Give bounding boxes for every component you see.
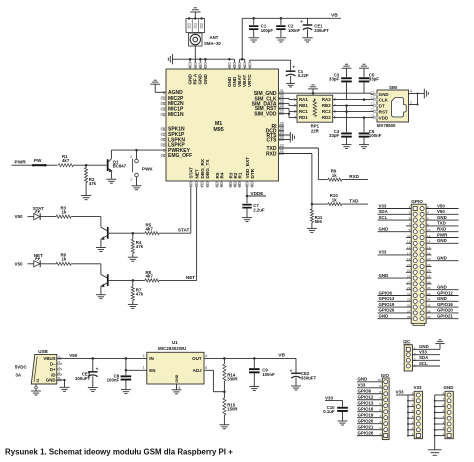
svg-text:7: 7 (442, 397, 444, 401)
svg-text:R1: R1 (237, 172, 242, 178)
ground under C7 (242, 217, 252, 219)
labels 5VDC 3A (15, 364, 28, 377)
ground under CE1 (302, 37, 312, 39)
svg-text:33: 33 (407, 298, 411, 302)
svg-text:100uFT: 100uFT (75, 376, 91, 381)
svg-text:GPIO16: GPIO16 (358, 407, 374, 412)
svg-text:PW: PW (34, 158, 42, 163)
ground under R7 (128, 303, 138, 305)
wires SIM_CLK SIM_DATA SIM_RST SIM_VDD to RP1 (279, 99, 298, 118)
svg-text:GPIO26: GPIO26 (358, 430, 374, 435)
svg-text:30: 30 (250, 184, 254, 188)
IC M1 M95 body (166, 69, 279, 181)
svg-text:41: 41 (215, 184, 219, 188)
svg-text:0.22F: 0.22F (298, 73, 309, 78)
svg-text:16: 16 (162, 154, 166, 158)
connector USB (31, 349, 62, 384)
svg-text:3: 3 (412, 420, 414, 424)
wire STAT net to IC (178, 188, 191, 234)
capacitor Cx 0.22F supercap (286, 65, 309, 83)
resistor R15 150R (223, 392, 239, 425)
svg-text:C5: C5 (371, 91, 375, 95)
svg-text:NET: NET (194, 169, 199, 179)
svg-text:11: 11 (407, 234, 410, 238)
svg-text:3: 3 (294, 110, 296, 114)
svg-text:SMA–30: SMA–30 (204, 41, 221, 46)
ground for I2C GND pin (435, 340, 444, 349)
svg-text:DBG_TX: DBG_TX (205, 159, 210, 179)
svg-text:V50: V50 (15, 261, 24, 266)
svg-text:32: 32 (427, 292, 431, 296)
resistor R9 1k (328, 169, 368, 182)
connector V33 8pin (407, 385, 422, 439)
resistor R6 1k (56, 253, 101, 266)
svg-text:4k7: 4k7 (146, 226, 154, 231)
svg-text:GPIO19: GPIO19 (358, 412, 374, 417)
svg-text:GND: GND (437, 296, 447, 301)
svg-text:4: 4 (294, 116, 296, 120)
svg-text:RXD: RXD (437, 227, 446, 232)
svg-text:25: 25 (407, 275, 411, 279)
svg-text:RA2: RA2 (322, 97, 331, 102)
IC M1 bottom pin labels (189, 157, 255, 188)
svg-text:R4: R4 (219, 172, 224, 178)
resistor R4 47k (131, 233, 143, 257)
svg-text:330R: 330R (227, 376, 238, 381)
svg-text:+: + (96, 367, 99, 372)
svg-text:GND: GND (379, 227, 389, 232)
svg-text:31: 31 (407, 292, 411, 296)
svg-text:SIM: SIM (389, 85, 397, 90)
IC U1 MIC29302WU (147, 340, 208, 384)
svg-text:1k: 1k (332, 197, 337, 202)
svg-text:2: 2 (130, 155, 132, 159)
svg-text:VB: VB (331, 12, 338, 18)
svg-text:RB1: RB1 (299, 103, 308, 108)
wire top GND bus (173, 58, 235, 63)
svg-text:V33: V33 (358, 383, 366, 388)
connector GPIO 2x20 header body (411, 199, 426, 326)
svg-text:100nF: 100nF (288, 28, 301, 33)
ground left of top GND bus (168, 54, 172, 64)
svg-text:47k: 47k (89, 181, 97, 186)
svg-text:23: 23 (280, 135, 284, 139)
IC M1 top pins group 2 (GND GND VBAT VBAT VRTC) (227, 63, 252, 88)
ground for RTS CTS pins (279, 132, 295, 142)
svg-text:GPIO26: GPIO26 (379, 308, 395, 313)
svg-text:10: 10 (427, 228, 431, 232)
label PWR net (12, 160, 34, 166)
label V33 for C10 (325, 395, 343, 400)
svg-text:RST: RST (379, 109, 388, 114)
svg-text:14: 14 (195, 184, 199, 188)
svg-text:24: 24 (427, 269, 431, 273)
svg-text:1: 1 (414, 347, 416, 351)
svg-text:MIC29302WU: MIC29302WU (158, 346, 186, 351)
svg-text:38: 38 (427, 309, 431, 313)
wire U1 OUT to VB (204, 353, 296, 360)
transistor NET driver (101, 264, 109, 294)
ground under C10 (338, 420, 348, 422)
svg-text:NET: NET (34, 253, 43, 258)
svg-text:59: 59 (193, 65, 197, 69)
svg-text:30: 30 (427, 286, 431, 290)
capacitor CE3 100uFT (75, 358, 99, 387)
ground up on SIM_GND (308, 85, 318, 93)
svg-text:28: 28 (427, 280, 431, 284)
svg-text:12: 12 (427, 234, 431, 238)
svg-text:OUT: OUT (192, 356, 202, 361)
svg-text:16: 16 (228, 65, 232, 69)
svg-text:RD2: RD2 (322, 115, 331, 120)
GPIO right side wires and labels (426, 203, 458, 319)
svg-text:18: 18 (162, 102, 166, 106)
IC M1 left pin labels (161, 90, 192, 159)
ground for AGND pin (150, 80, 166, 92)
svg-text:21: 21 (407, 263, 411, 267)
wire Q1 collector to PWRKEY (111, 149, 166, 152)
svg-text:1k: 1k (62, 209, 67, 214)
svg-text:MX78600: MX78600 (377, 123, 396, 128)
svg-text:3: 3 (409, 211, 411, 215)
svg-text:DBG_RX: DBG_RX (200, 158, 205, 178)
ground under C1 (249, 37, 259, 39)
svg-text:47k: 47k (136, 244, 144, 249)
svg-text:33pF: 33pF (329, 133, 339, 138)
wire VRTC to Cx (250, 60, 291, 71)
transistor Q1 BC847 (107, 150, 127, 179)
connector SIM MX78600 (371, 85, 409, 128)
resistor R3 1k (56, 205, 101, 218)
jumper PW (32, 158, 58, 167)
svg-text:19: 19 (162, 107, 166, 111)
svg-text:5VDC: 5VDC (15, 364, 28, 369)
svg-text:40: 40 (427, 315, 431, 319)
ground above ANT connector (190, 8, 200, 19)
wire NET driver base node (109, 279, 145, 282)
svg-text:4: 4 (442, 415, 444, 419)
svg-text:4: 4 (379, 414, 381, 418)
svg-text:GND: GND (437, 256, 447, 261)
svg-text:SIM_VDD: SIM_VDD (254, 111, 277, 117)
svg-text:20: 20 (162, 113, 166, 117)
svg-text:25: 25 (280, 126, 284, 130)
resistor R5 4k7 (145, 223, 191, 235)
svg-text:34: 34 (238, 184, 242, 188)
svg-text:DT: DT (379, 103, 385, 108)
svg-text:C3: C3 (371, 96, 375, 100)
svg-text:330uFT: 330uFT (314, 28, 329, 33)
svg-text:58: 58 (198, 65, 202, 69)
wire NET net to IC (186, 188, 197, 281)
svg-text:GND: GND (419, 344, 429, 349)
svg-text:4: 4 (410, 89, 412, 93)
svg-text:GPIO21: GPIO21 (358, 424, 374, 429)
ground under R11 (307, 227, 317, 229)
svg-text:15: 15 (233, 65, 237, 69)
svg-text:2: 2 (379, 426, 381, 430)
svg-text:14: 14 (427, 240, 431, 244)
svg-text:V33: V33 (379, 250, 387, 255)
ground under R15 (219, 424, 229, 426)
svg-text:6: 6 (427, 217, 429, 221)
wire VBAT bus segment (240, 58, 245, 63)
svg-text:GND: GND (175, 374, 179, 382)
svg-text:GND: GND (437, 238, 447, 243)
svg-text:4: 4 (205, 354, 207, 358)
svg-text:34: 34 (238, 65, 242, 69)
svg-text:V50: V50 (15, 214, 24, 219)
svg-text:PWK: PWK (142, 166, 153, 171)
capacitor C8 100nF and EN wire (107, 354, 147, 390)
svg-text:STAT: STAT (178, 228, 190, 233)
capacitor C4 33pF (329, 106, 352, 145)
svg-text:6: 6 (379, 402, 381, 406)
svg-text:3: 3 (178, 386, 180, 390)
svg-text:V33: V33 (396, 389, 405, 394)
svg-text:STAT: STAT (189, 167, 194, 179)
svg-text:RB2: RB2 (322, 103, 331, 108)
capacitor C6 100nF (359, 118, 382, 145)
svg-text:D–: D– (50, 362, 56, 367)
svg-text:S1: S1 (36, 378, 40, 382)
svg-text:4k7: 4k7 (146, 274, 154, 279)
svg-text:21: 21 (162, 133, 166, 137)
label V50 for NET branch (15, 261, 35, 266)
svg-text:4: 4 (414, 364, 416, 368)
svg-text:3A: 3A (15, 373, 22, 378)
svg-text:GND: GND (358, 377, 368, 382)
svg-text:57: 57 (204, 65, 208, 69)
svg-text:C2: C2 (371, 108, 375, 112)
svg-text:8: 8 (379, 390, 381, 394)
svg-text:1: 1 (130, 178, 132, 182)
svg-text:35: 35 (407, 304, 411, 308)
svg-text:1: 1 (412, 432, 414, 436)
wire SIM_GND from IC to SIM connector (279, 92, 378, 95)
pushbutton PWK (130, 150, 153, 186)
label V50 for STAT branch (15, 214, 35, 219)
svg-text:6: 6 (412, 403, 414, 407)
node R1/R2/Q1 base (85, 164, 88, 167)
svg-text:5: 5 (409, 217, 411, 221)
svg-text:SCL: SCL (419, 361, 428, 366)
wires SIM connector card detect to ground (409, 89, 425, 105)
label ANT SMA-20 (204, 35, 221, 46)
svg-text:100pF: 100pF (261, 28, 274, 33)
resistor R2 47k (85, 165, 97, 195)
svg-text:ADJ: ADJ (193, 368, 202, 373)
svg-text:V50: V50 (437, 209, 445, 214)
ground under CE3 (88, 387, 98, 389)
svg-text:16: 16 (427, 246, 431, 250)
svg-text:U1: U1 (172, 340, 178, 345)
svg-text:GIO: GIO (381, 373, 390, 378)
wires RP1 to SIM connector (333, 98, 377, 119)
svg-text:29: 29 (280, 99, 284, 103)
svg-text:26: 26 (427, 275, 431, 279)
svg-text:7: 7 (409, 222, 411, 226)
wire U1 ADJ to divider (204, 370, 224, 391)
svg-text:GPIO21: GPIO21 (437, 314, 453, 319)
svg-text:VRTC: VRTC (247, 74, 252, 87)
svg-text:15: 15 (407, 246, 411, 250)
svg-text:VB: VB (278, 353, 285, 359)
capacitor C1 100pF (249, 17, 273, 37)
svg-text:+: + (290, 368, 293, 373)
svg-text:SDA: SDA (419, 355, 429, 360)
ground under C6 (359, 144, 369, 146)
svg-text:5: 5 (412, 409, 414, 413)
svg-text:1: 1 (379, 432, 381, 436)
IC M1 right pin labels and numbers (252, 89, 284, 157)
ground under STAT driver emitter (96, 247, 106, 249)
svg-text:VBUS: VBUS (43, 356, 55, 361)
svg-text:D+: D+ (50, 367, 56, 372)
svg-text:MIC1N: MIC1N (168, 112, 184, 118)
svg-text:1: 1 (294, 98, 296, 102)
svg-text:40: 40 (220, 184, 224, 188)
svg-text:C1: C1 (371, 114, 375, 118)
svg-text:1k: 1k (332, 173, 337, 178)
svg-text:34: 34 (427, 298, 431, 302)
svg-text:GPIO6: GPIO6 (379, 290, 393, 295)
resistor R10 1k (328, 193, 368, 205)
svg-text:GND: GND (437, 285, 447, 290)
LED STAT (33, 206, 56, 220)
svg-text:NET: NET (186, 275, 195, 280)
svg-text:2: 2 (143, 354, 145, 358)
capacitor C5 33pF with ground up (359, 64, 380, 93)
ground right of SIM connector (423, 89, 425, 99)
svg-text:3: 3 (442, 420, 444, 424)
svg-text:V33: V33 (414, 385, 423, 390)
capacitor C2 100nF (276, 17, 300, 37)
svg-text:GND: GND (437, 215, 447, 220)
svg-text:17: 17 (200, 184, 204, 188)
wire USB GND pin to ground (57, 379, 70, 391)
ground under R2 (81, 195, 91, 197)
svg-text:2: 2 (442, 426, 444, 430)
svg-text:9: 9 (409, 228, 411, 232)
ground under Cx (286, 82, 295, 84)
svg-text:SDA: SDA (379, 209, 389, 214)
svg-text:9: 9 (379, 384, 381, 388)
resistor network RP1 22R (294, 95, 336, 133)
svg-text:V50: V50 (69, 353, 78, 358)
svg-text:8: 8 (442, 391, 444, 395)
capacitor C3 33pF with ground up (329, 64, 352, 99)
svg-text:150R: 150R (227, 406, 238, 411)
svg-text:IN: IN (149, 356, 154, 361)
svg-text:13: 13 (407, 240, 411, 244)
svg-text:3: 3 (414, 358, 416, 362)
svg-text:100nF: 100nF (262, 372, 275, 377)
svg-text:17: 17 (407, 251, 411, 255)
ground under C4 (342, 144, 352, 146)
ground under Q1 emitter (106, 178, 116, 180)
svg-text:RA1: RA1 (299, 97, 308, 102)
svg-text:22R: 22R (311, 128, 320, 133)
ground under C2 (276, 37, 286, 39)
wire VB rail (242, 18, 341, 59)
svg-text:PWR: PWR (437, 232, 448, 237)
svg-text:STAT: STAT (33, 206, 44, 211)
svg-text:30: 30 (280, 94, 284, 98)
svg-text:7: 7 (379, 396, 381, 400)
svg-text:14: 14 (162, 143, 166, 147)
svg-text:60: 60 (188, 65, 192, 69)
svg-text:2: 2 (427, 205, 429, 209)
ground under GND connector (428, 449, 442, 451)
svg-text:GPIO: GPIO (411, 199, 423, 204)
wire TXD from IC pin 22 (279, 148, 328, 180)
svg-text:Rysunek 1. Schemat ideowy modu: Rysunek 1. Schemat ideowy modułu GSM dla… (5, 447, 233, 456)
label V33 net to V33 connector (396, 389, 409, 395)
svg-text:M95: M95 (213, 127, 223, 133)
svg-text:ID: ID (51, 372, 55, 377)
svg-text:4: 4 (427, 211, 429, 215)
svg-text:1: 1 (442, 432, 444, 436)
svg-text:47k: 47k (136, 291, 144, 296)
svg-text:39: 39 (407, 315, 411, 319)
svg-text:100nF: 100nF (369, 133, 382, 138)
svg-text:10: 10 (378, 378, 382, 382)
resistor R8 4k7 (145, 270, 197, 282)
svg-text:1k: 1k (62, 257, 67, 262)
wire DCD pin stub (279, 130, 285, 132)
svg-text:GPIO19: GPIO19 (379, 302, 395, 307)
svg-text:GND: GND (379, 273, 389, 278)
wire STAT driver base node (109, 232, 145, 235)
svg-text:CLK: CLK (379, 97, 389, 102)
svg-text:RD1: RD1 (299, 115, 308, 120)
connector ANT SMA-30 pin header (186, 17, 205, 32)
ground under C8 (121, 389, 131, 391)
svg-text:0.1uF: 0.1uF (323, 409, 335, 414)
ground U1 GND pin (172, 384, 182, 394)
svg-text:33pF: 33pF (369, 76, 379, 81)
svg-text:4k7: 4k7 (62, 158, 70, 163)
svg-text:4: 4 (412, 415, 414, 419)
svg-text:31: 31 (280, 89, 284, 93)
svg-text:DTR: DTR (250, 168, 255, 178)
svg-text:2: 2 (412, 426, 414, 430)
svg-text:TXD: TXD (349, 199, 359, 204)
IC M1 top pins group 1 (GND RF GND DND) (187, 59, 207, 84)
svg-text:7: 7 (412, 397, 414, 401)
svg-text:USB: USB (38, 349, 48, 354)
svg-text:26: 26 (280, 122, 284, 126)
svg-text:V33: V33 (419, 350, 427, 355)
capacitor CE2 330uFT (290, 358, 317, 385)
resistor R11 5k6 (310, 204, 323, 228)
svg-text:35: 35 (233, 184, 237, 188)
svg-text:I2C: I2C (403, 339, 411, 344)
ground USB shield (31, 384, 41, 395)
LED NET (34, 253, 56, 267)
svg-text:22: 22 (427, 263, 431, 267)
svg-text:29: 29 (407, 286, 411, 290)
svg-text:V33: V33 (325, 395, 334, 400)
svg-text:33pF: 33pF (329, 76, 339, 81)
svg-text:5k6: 5k6 (315, 219, 323, 224)
svg-text:PWR: PWR (15, 160, 27, 166)
ground under PWK (132, 185, 142, 187)
connector I2C (403, 339, 440, 371)
svg-text:12: 12 (189, 184, 193, 188)
svg-text:RC1: RC1 (299, 109, 308, 114)
